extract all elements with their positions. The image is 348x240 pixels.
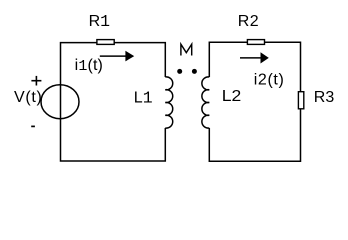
inductor L2 [202, 77, 209, 128]
svg-text:L2: L2 [222, 88, 242, 105]
dot mark left (M polarity) [177, 69, 182, 74]
svg-text:V(t): V(t) [14, 89, 43, 106]
label M [181, 44, 192, 55]
minus sign [31, 125, 35, 127]
svg-text:i1(t): i1(t) [75, 57, 103, 75]
inductor L1 [165, 77, 172, 128]
wire right loop outline (top, right, bottom, left sides) [209, 42, 300, 161]
plus sign [31, 76, 41, 86]
current arrow i2 [240, 52, 269, 63]
svg-text:R3: R3 [314, 89, 335, 106]
wire left loop outline (top, left, bottom, right sides) [61, 43, 166, 161]
svg-text:R2: R2 [238, 13, 259, 30]
resistor R3 [298, 92, 303, 109]
resistor R1 [97, 40, 114, 45]
dot mark right (M polarity) [192, 69, 197, 74]
svg-text:L1: L1 [134, 88, 153, 107]
current arrow i1 [100, 51, 134, 62]
svg-text:i2(t): i2(t) [254, 72, 285, 89]
voltage source V(t) [41, 85, 79, 119]
svg-text:R1: R1 [89, 12, 111, 31]
resistor R2 [247, 40, 264, 45]
